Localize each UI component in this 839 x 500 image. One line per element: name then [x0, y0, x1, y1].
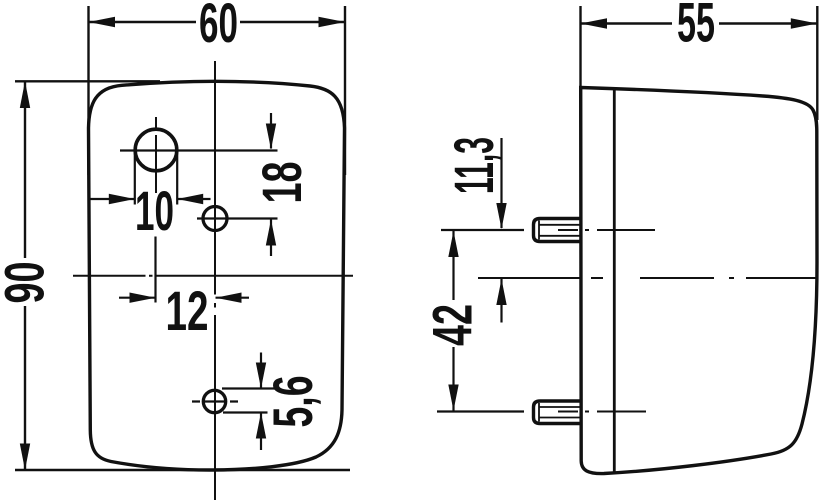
dim 10 arrow left [90, 198, 135, 200]
dim 5.6 arrow top [260, 353, 262, 389]
stud 1 centerline [441, 229, 524, 231]
svg-text:55: 55 [677, 0, 715, 54]
front view body outline [89, 81, 345, 470]
lower hole 5.6mm circle [203, 390, 225, 412]
hole 10mm horizontal centerline [120, 149, 278, 151]
front view horizontal centerline [73, 275, 353, 277]
dim 90 bottom extension line [15, 469, 350, 471]
side view lens separation line [613, 88, 616, 473]
lower hole horizontal centerline [192, 400, 238, 402]
svg-text:10: 10 [135, 179, 174, 242]
dim 5.6 extension line bottom [223, 411, 268, 413]
stud 2 thread line bottom [539, 417, 580, 419]
dim 60 line [89, 21, 197, 23]
svg-text:11,3: 11,3 [442, 137, 505, 194]
stud 2 chamfer line [538, 403, 540, 422]
side view body outline [581, 88, 817, 474]
hole 10mm vertical centerline [155, 117, 157, 193]
dim 11.3 arrow top [500, 138, 502, 228]
front view vertical centerline [214, 61, 216, 500]
svg-text:60: 60 [199, 0, 238, 54]
svg-text:18: 18 [250, 162, 313, 204]
stud 1 thread line bottom [539, 235, 580, 237]
dim 10 extension line left [134, 152, 136, 205]
svg-text:42: 42 [421, 304, 484, 346]
svg-text:12: 12 [166, 279, 209, 342]
hole 10mm circle [135, 129, 177, 171]
small hole circle on centerline [203, 207, 227, 231]
dim 55 extension line left [579, 6, 581, 87]
stud 1 chamfer line [538, 221, 540, 240]
dim 12 arrow left [119, 297, 156, 299]
dim 55 arrow left [581, 18, 608, 28]
dim 55 line [581, 22, 673, 24]
dim 90 arrow bottom [20, 444, 30, 471]
stud 2 body [534, 401, 581, 424]
dim 42 arrow top [452, 231, 454, 300]
small hole horizontal centerline [197, 217, 278, 219]
dim 5.6 extension line top [222, 387, 277, 389]
dim 55 extension line right [816, 6, 818, 120]
side view horizontal centerline [478, 277, 817, 279]
stud 2 thread line top [539, 406, 580, 408]
dim 60 extension line right [344, 6, 346, 175]
dim 10 extension line right [176, 152, 178, 205]
dim 18 arrow bottom [270, 220, 272, 257]
dim 10 arrow right [177, 198, 210, 200]
dim 60 arrow right [319, 17, 346, 27]
dim 42 arrow bottom [452, 347, 454, 411]
dim 90 arrow top [20, 81, 30, 108]
dim 55 arrow right [791, 18, 818, 28]
dim 18 arrow top [270, 113, 272, 149]
dim 12 arrow right [216, 297, 250, 299]
stud 1 thread line top [539, 224, 580, 226]
dim 60 extension line left [87, 6, 89, 175]
svg-text:5,6: 5,6 [261, 376, 324, 428]
stud 1 body [534, 219, 581, 242]
stud 2 centerline [437, 410, 524, 412]
dim 90 line [24, 81, 26, 258]
svg-text:90: 90 [0, 262, 56, 304]
dim 60 arrow left [89, 17, 116, 27]
dim 90 top extension line [15, 80, 160, 82]
dim 12 extension line [154, 237, 156, 303]
dim 11.3 arrow bottom [500, 279, 502, 323]
dim 5.6 arrow bottom [260, 413, 262, 450]
